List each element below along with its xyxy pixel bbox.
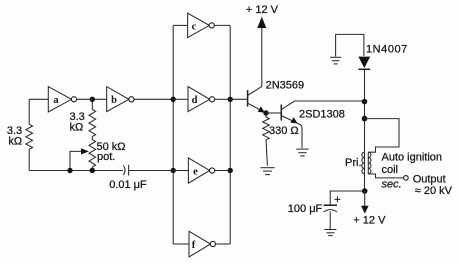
wire: diode to collector node and HV rail — [364, 70, 366, 152]
svg-text:c: c — [192, 21, 197, 32]
svg-text:Output: Output — [413, 173, 446, 185]
svg-text:sec.: sec. — [382, 179, 402, 191]
inverter f — [189, 231, 211, 257]
inverter b — [107, 87, 129, 112]
Q1 collector — [248, 28, 262, 96]
node: a-output / 3.3k junction — [90, 97, 95, 102]
wire: a output to b input — [76, 98, 106, 100]
svg-text:a: a — [53, 95, 59, 106]
wire: b output to input rail — [134, 98, 173, 100]
svg-text:+: + — [334, 194, 340, 206]
transistor Q2 2SD1308 base bar — [280, 105, 282, 121]
node: Q1 emitter / Q2 base / 330R — [263, 110, 268, 115]
coil primary winding — [362, 152, 365, 174]
Q2 emitter — [281, 116, 302, 149]
node: pot bottom on bottom wire — [90, 168, 95, 173]
wire: c output to rail — [214, 24, 230, 26]
Q1 emitter arrowhead — [258, 106, 265, 112]
node: output rail at d level — [228, 97, 233, 102]
svg-text:2SD1308: 2SD1308 — [299, 108, 345, 120]
capacitor 0.01uF straight plate — [128, 165, 130, 176]
resistor 330 ohm — [263, 113, 270, 140]
supply arrow down +12V — [364, 191, 366, 207]
node: output rail at e level — [228, 168, 233, 173]
svg-text:≈ 20 kV: ≈ 20 kV — [415, 185, 453, 197]
svg-text:kΩ: kΩ — [70, 122, 84, 134]
wire: join between 3.3k and pot — [91, 137, 93, 140]
Q2 collector — [281, 101, 364, 110]
svg-text:Pri.: Pri. — [345, 157, 362, 169]
bubble a output — [71, 97, 76, 102]
coil secondary spine — [367, 152, 369, 174]
wire: secondary top rectangle — [365, 119, 400, 153]
svg-text:+ 12 V: + 12 V — [246, 4, 279, 16]
svg-text:2N3569: 2N3569 — [266, 79, 305, 91]
wire: inverter a input from left vertical — [29, 98, 48, 100]
svg-text:kΩ: kΩ — [8, 136, 22, 148]
wire: e output to rail — [215, 170, 231, 172]
wire: c input — [173, 24, 187, 26]
svg-text:330 Ω: 330 Ω — [269, 125, 299, 137]
svg-text:d: d — [192, 95, 198, 106]
wire: rail to Q1 base — [230, 98, 247, 100]
wire: 330R to ground — [266, 140, 267, 166]
coil secondary winding — [368, 152, 371, 174]
bubble b output — [129, 97, 134, 102]
resistor R 3.3k middle — [89, 110, 96, 137]
svg-text:Auto ignition: Auto ignition — [382, 151, 443, 163]
node: rail / Q2 collector — [362, 99, 368, 105]
wire: left vertical lower segment — [28, 149, 30, 170]
diode D1 1N4007 triangle — [358, 57, 370, 68]
node: rail / secondary top loop — [362, 116, 368, 122]
node: input rail at e level — [171, 168, 176, 173]
resistor R 3.3k left — [26, 124, 33, 149]
node: +12V / 100uF junction — [362, 188, 368, 194]
node: wiper to bottom wire — [67, 168, 72, 173]
supply arrow up +12V — [257, 17, 266, 28]
inverter a — [48, 87, 71, 112]
wiper arm wire — [70, 151, 84, 170]
inverter d — [188, 87, 210, 112]
node: input rail at d level — [171, 97, 176, 102]
wire: left vertical upper segment — [28, 99, 30, 124]
wire: top ground stub and horizontal to diode — [336, 34, 364, 56]
diode cathode bar — [358, 68, 370, 70]
svg-text:1N4007: 1N4007 — [366, 43, 408, 55]
ground: below 330R — [260, 168, 274, 175]
svg-text:100 μF: 100 μF — [288, 203, 323, 215]
wire: middle vertical top stub — [91, 99, 93, 109]
wire: bottom horizontal left of cap — [29, 170, 123, 172]
svg-text:e: e — [193, 166, 198, 177]
ground: Q2 emitter — [296, 149, 308, 156]
inverter e — [188, 158, 209, 183]
output terminal circle — [404, 176, 409, 181]
wire: f input — [173, 243, 189, 245]
bubble d output — [210, 97, 215, 102]
wire: cap to inverter rail — [129, 170, 174, 172]
wire: f output to rail — [215, 243, 230, 245]
wire: output rail (right vertical of inverter bank) — [229, 25, 231, 244]
wire: d input — [173, 98, 188, 100]
wire: pot bottom stub — [91, 167, 93, 171]
bubble c output — [209, 23, 214, 28]
wire: primary bottom to +12V node — [364, 174, 366, 191]
ground: below 100uF — [324, 230, 336, 236]
svg-text:pot.: pot. — [97, 151, 115, 163]
wire: secondary bottom to output terminal — [368, 174, 403, 178]
wire: e input — [173, 170, 188, 172]
svg-text:+ 12 V: + 12 V — [353, 215, 386, 227]
capacitor 0.01uF curved plate — [123, 166, 125, 175]
wire: input rail (left vertical of inverter bank) — [172, 25, 174, 244]
potentiometer 50k zigzag — [89, 140, 96, 167]
coil primary spine — [364, 152, 366, 174]
wire: Q1 emitter node to Q2 base — [266, 112, 281, 114]
transistor Q1 2N3569 base bar — [247, 90, 249, 107]
ground: top left of diode — [330, 57, 341, 64]
capacitor 100uF curved plate — [324, 210, 338, 212]
svg-text:b: b — [111, 95, 117, 106]
inverter c — [188, 13, 210, 37]
Q1 emitter — [248, 103, 266, 113]
wire: cap to ground — [329, 212, 331, 229]
Q2 emitter arrowhead — [291, 117, 298, 123]
svg-text:0.01 μF: 0.01 μF — [109, 179, 147, 191]
svg-text:coil: coil — [382, 164, 399, 176]
capacitor 100uF top plate — [324, 204, 338, 206]
svg-text:f: f — [192, 240, 196, 251]
wiper arrowhead — [81, 148, 89, 154]
bubble f output — [210, 241, 215, 246]
wire: d output to rail — [215, 98, 231, 100]
bubble e output — [210, 168, 215, 173]
wire: node to 100uF cap — [330, 191, 365, 205]
